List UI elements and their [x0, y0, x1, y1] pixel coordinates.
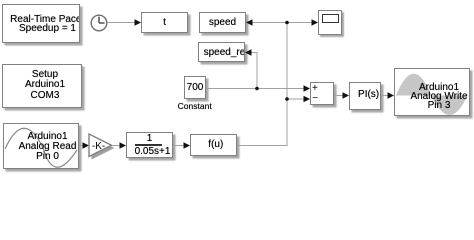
block speed_ref display: [198, 42, 245, 62]
junction node feedback minus: [285, 97, 289, 101]
label Constant: [155, 101, 235, 111]
junction node feedback top: [285, 21, 289, 25]
wire analog read to gain: [79, 142, 89, 148]
wire clock to t: [107, 19, 141, 25]
block Arduino1 Analog Write Pin 3: [394, 68, 470, 116]
block sum: [310, 82, 334, 105]
wire PI to analog write: [381, 92, 394, 98]
wire constant branch to speed_ref: [245, 49, 257, 88]
block f(u) function: [190, 134, 237, 156]
wire feedback to speed display: [246, 19, 287, 25]
block t (To Workspace): [141, 12, 188, 33]
block scope: [318, 10, 342, 35]
block transfer function 1/(0.05s+1): [126, 132, 173, 158]
block Setup Arduino1 COM3: [2, 64, 82, 108]
block constant 700: [184, 76, 206, 99]
block PI(s) controller: [349, 82, 381, 110]
svg-text:-K-: -K-: [92, 141, 105, 152]
wire sum to PI: [334, 92, 349, 98]
wire feedback to sum minus: [287, 96, 310, 102]
wire transfer fcn to f(u): [173, 142, 190, 148]
junction node constant/speed_ref: [255, 87, 259, 91]
block Real-Time Pacer: [2, 4, 80, 43]
wire feedback vertical: [286, 23, 288, 146]
block Arduino1 Analog Read Pin 0: [3, 123, 79, 169]
clock source icon: [91, 15, 107, 31]
gain -K- triangle: [89, 134, 115, 160]
wire constant to sum plus: [206, 85, 310, 91]
wire feedback to scope: [287, 19, 318, 25]
wire f(u) to feedback vertical: [237, 145, 288, 147]
wire gain to transfer fcn: [112, 142, 126, 148]
block speed display: [199, 12, 246, 33]
